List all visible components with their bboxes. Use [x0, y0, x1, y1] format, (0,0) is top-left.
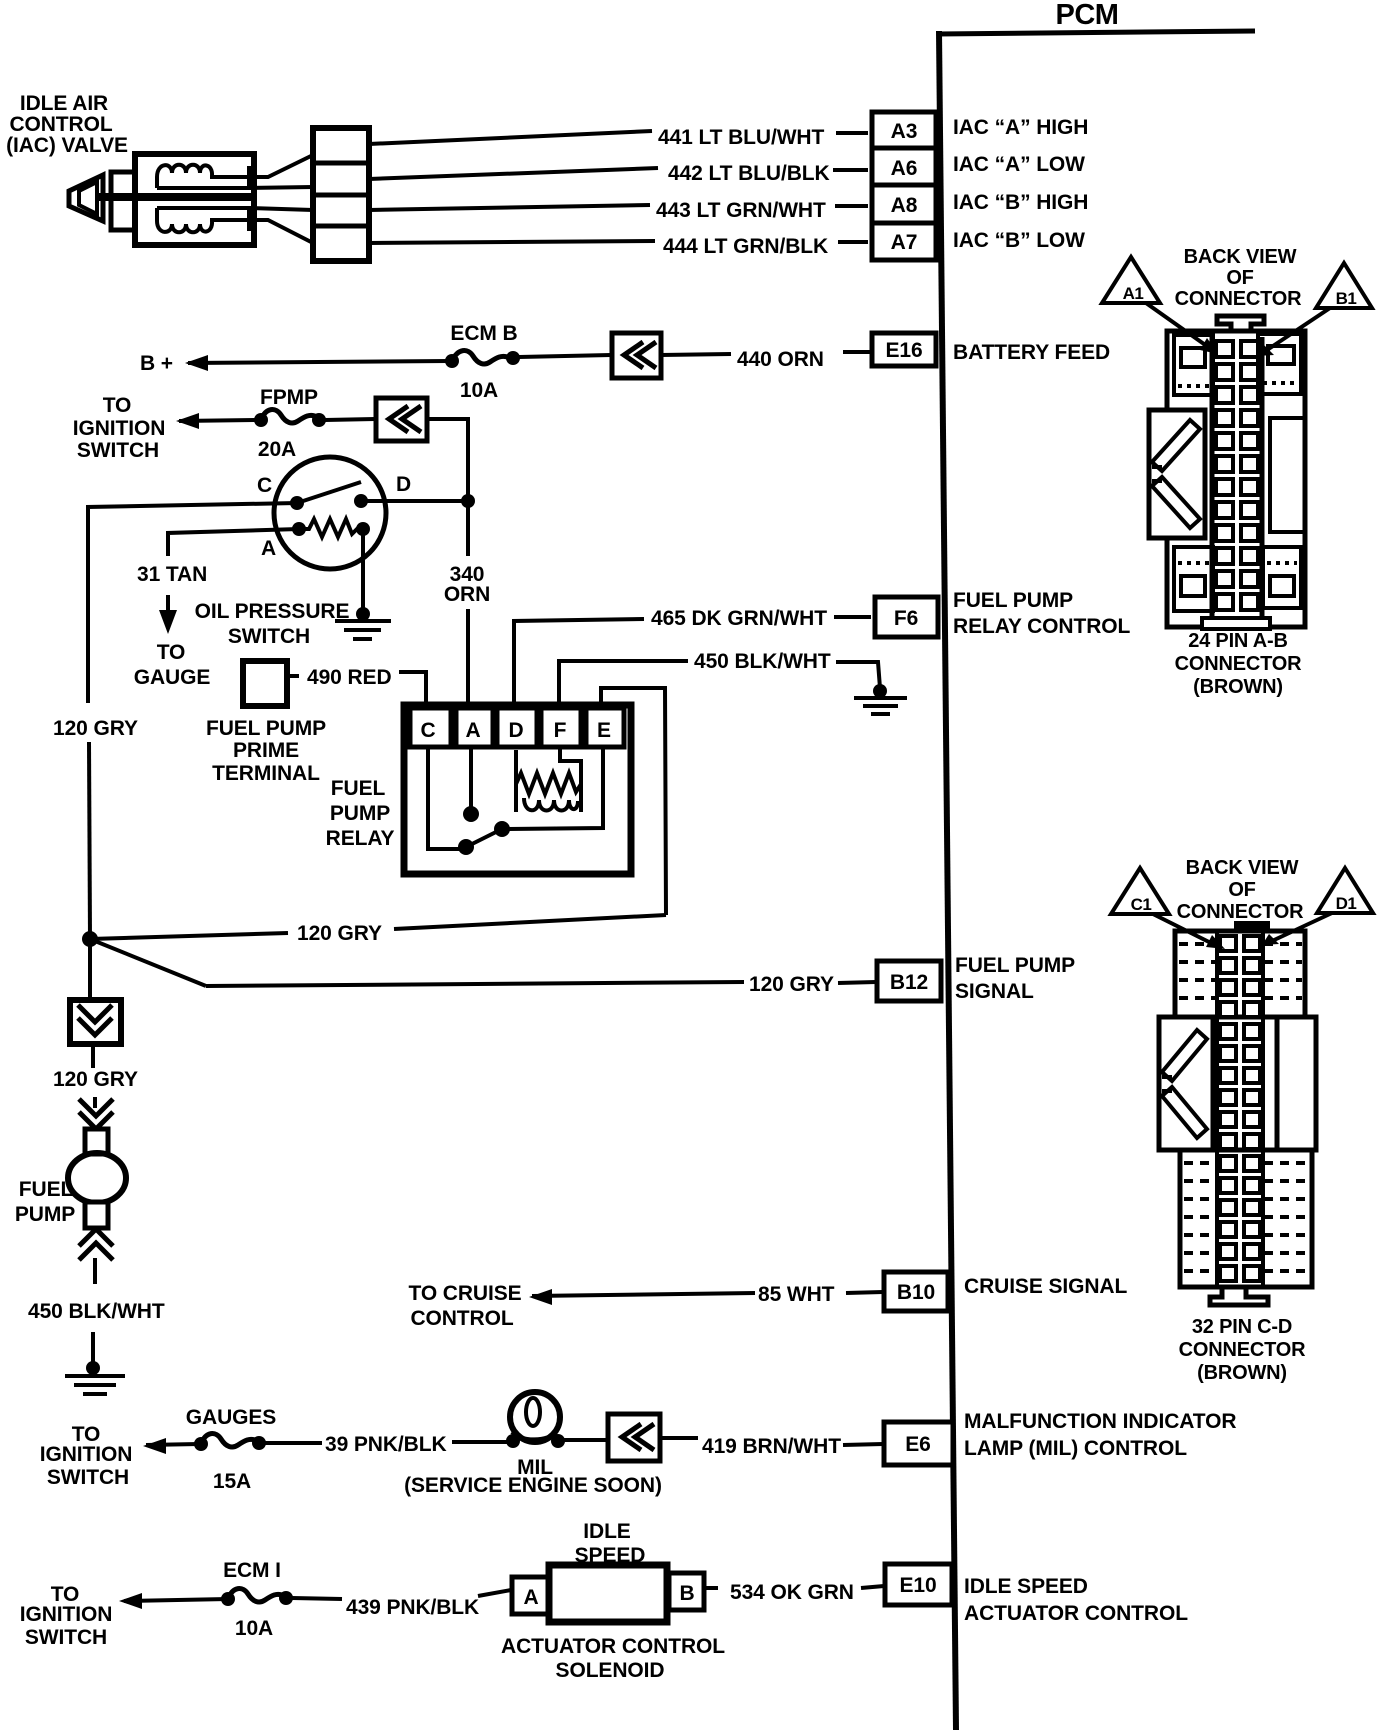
- svg-text:B12: B12: [890, 971, 928, 994]
- svg-text:B +: B +: [140, 352, 173, 375]
- svg-text:A6: A6: [891, 157, 918, 180]
- svg-text:CRUISE SIGNAL: CRUISE SIGNAL: [964, 1275, 1127, 1298]
- svg-text:15A: 15A: [213, 1470, 251, 1493]
- svg-text:FUEL PUMP: FUEL PUMP: [953, 589, 1073, 612]
- svg-text:31 TAN: 31 TAN: [137, 563, 207, 586]
- svg-text:RELAY CONTROL: RELAY CONTROL: [953, 615, 1130, 638]
- svg-text:TO: TO: [157, 641, 186, 664]
- svg-text:PCM: PCM: [1056, 0, 1119, 31]
- svg-text:PUMP: PUMP: [330, 802, 390, 825]
- svg-text:450 BLK/WHT: 450 BLK/WHT: [694, 650, 831, 673]
- svg-text:LAMP (MIL) CONTROL: LAMP (MIL) CONTROL: [964, 1437, 1187, 1460]
- svg-text:10A: 10A: [460, 379, 498, 402]
- svg-text:IDLE: IDLE: [583, 1520, 631, 1543]
- svg-text:IGNITION: IGNITION: [40, 1443, 133, 1466]
- svg-text:IAC “B” LOW: IAC “B” LOW: [953, 229, 1085, 252]
- svg-text:120 GRY: 120 GRY: [53, 717, 138, 740]
- svg-text:450 BLK/WHT: 450 BLK/WHT: [28, 1300, 165, 1323]
- svg-text:SWITCH: SWITCH: [228, 625, 310, 648]
- svg-text:RELAY: RELAY: [326, 827, 395, 850]
- svg-text:20A: 20A: [258, 438, 296, 461]
- svg-text:ACTUATOR CONTROL: ACTUATOR CONTROL: [501, 1635, 725, 1658]
- svg-text:CONNECTOR: CONNECTOR: [1175, 653, 1302, 675]
- svg-text:BACK VIEW: BACK VIEW: [1184, 246, 1297, 268]
- svg-text:FPMP: FPMP: [260, 386, 318, 409]
- svg-text:440 ORN: 440 ORN: [737, 348, 824, 371]
- svg-text:TO CRUISE: TO CRUISE: [408, 1282, 521, 1305]
- svg-text:32 PIN C-D: 32 PIN C-D: [1192, 1316, 1292, 1338]
- svg-text:FUEL: FUEL: [331, 777, 386, 800]
- svg-text:ORN: ORN: [444, 583, 490, 606]
- svg-text:F: F: [554, 719, 567, 742]
- svg-text:B10: B10: [897, 1281, 935, 1304]
- svg-text:CONTROL: CONTROL: [410, 1307, 513, 1330]
- svg-text:CONNECTOR: CONNECTOR: [1177, 901, 1304, 923]
- svg-text:A: A: [465, 719, 480, 742]
- svg-text:F6: F6: [894, 607, 918, 630]
- svg-text:GAUGE: GAUGE: [134, 666, 211, 689]
- svg-text:85 WHT: 85 WHT: [758, 1283, 835, 1306]
- svg-text:120 GRY: 120 GRY: [53, 1068, 138, 1091]
- svg-text:534 OK GRN: 534 OK GRN: [730, 1581, 854, 1604]
- svg-text:A: A: [261, 537, 276, 560]
- svg-text:444 LT GRN/BLK: 444 LT GRN/BLK: [663, 235, 828, 258]
- svg-text:E16: E16: [885, 339, 922, 362]
- svg-text:(IAC) VALVE: (IAC) VALVE: [6, 134, 128, 157]
- svg-text:B: B: [679, 1582, 694, 1605]
- svg-text:(BROWN): (BROWN): [1197, 1362, 1287, 1384]
- svg-text:D: D: [508, 719, 523, 742]
- svg-text:120 GRY: 120 GRY: [297, 922, 382, 945]
- svg-text:MALFUNCTION INDICATOR: MALFUNCTION INDICATOR: [964, 1410, 1236, 1433]
- svg-text:A3: A3: [891, 120, 918, 143]
- svg-text:441 LT BLU/WHT: 441 LT BLU/WHT: [658, 126, 824, 149]
- svg-text:TO: TO: [103, 394, 132, 417]
- svg-text:SOLENOID: SOLENOID: [556, 1659, 665, 1682]
- svg-text:FUEL PUMP: FUEL PUMP: [206, 717, 326, 740]
- svg-text:SWITCH: SWITCH: [47, 1466, 129, 1489]
- svg-text:CONTROL: CONTROL: [9, 113, 112, 136]
- svg-text:TERMINAL: TERMINAL: [212, 762, 320, 785]
- svg-text:CONNECTOR: CONNECTOR: [1175, 288, 1302, 310]
- svg-text:FUEL: FUEL: [19, 1178, 74, 1201]
- svg-text:IGNITION: IGNITION: [20, 1603, 113, 1626]
- svg-text:OF: OF: [1228, 879, 1255, 901]
- svg-text:(BROWN): (BROWN): [1193, 676, 1283, 698]
- svg-text:IDLE SPEED: IDLE SPEED: [964, 1575, 1088, 1598]
- svg-text:24 PIN A-B: 24 PIN A-B: [1188, 630, 1288, 652]
- svg-text:PRIME: PRIME: [233, 739, 299, 762]
- svg-text:443 LT GRN/WHT: 443 LT GRN/WHT: [656, 199, 826, 222]
- svg-text:120 GRY: 120 GRY: [749, 973, 834, 996]
- svg-text:IAC “B” HIGH: IAC “B” HIGH: [953, 191, 1088, 214]
- svg-text:E: E: [597, 719, 611, 742]
- svg-text:439 PNK/BLK: 439 PNK/BLK: [346, 1596, 479, 1619]
- svg-text:E6: E6: [905, 1433, 931, 1456]
- svg-text:ACTUATOR CONTROL: ACTUATOR CONTROL: [964, 1602, 1188, 1625]
- svg-text:E10: E10: [899, 1574, 936, 1597]
- svg-text:D1: D1: [1336, 894, 1357, 913]
- svg-text:IAC “A” HIGH: IAC “A” HIGH: [953, 116, 1088, 139]
- svg-text:CONNECTOR: CONNECTOR: [1179, 1339, 1306, 1361]
- svg-text:FUEL PUMP: FUEL PUMP: [955, 954, 1075, 977]
- svg-text:(SERVICE ENGINE SOON): (SERVICE ENGINE SOON): [404, 1474, 662, 1497]
- svg-text:A: A: [523, 1586, 538, 1609]
- svg-text:OIL PRESSURE: OIL PRESSURE: [195, 600, 350, 623]
- svg-text:A7: A7: [891, 231, 918, 254]
- svg-text:A1: A1: [1123, 284, 1144, 303]
- svg-text:C1: C1: [1131, 895, 1152, 914]
- svg-text:SWITCH: SWITCH: [77, 439, 159, 462]
- svg-text:10A: 10A: [235, 1617, 273, 1640]
- svg-text:ECM I: ECM I: [223, 1559, 281, 1582]
- svg-text:39 PNK/BLK: 39 PNK/BLK: [325, 1433, 447, 1456]
- svg-text:BATTERY FEED: BATTERY FEED: [953, 341, 1110, 364]
- svg-text:BACK VIEW: BACK VIEW: [1186, 857, 1299, 879]
- svg-text:D: D: [396, 473, 411, 496]
- svg-text:442 LT BLU/BLK: 442 LT BLU/BLK: [668, 162, 830, 185]
- svg-text:C: C: [420, 719, 435, 742]
- svg-text:SPEED: SPEED: [575, 1544, 646, 1567]
- svg-text:C: C: [257, 474, 272, 497]
- svg-text:OF: OF: [1226, 267, 1253, 289]
- svg-text:B1: B1: [1336, 289, 1357, 308]
- svg-text:IGNITION: IGNITION: [73, 417, 166, 440]
- svg-text:PUMP: PUMP: [15, 1203, 75, 1226]
- svg-text:ECM B: ECM B: [450, 322, 517, 345]
- svg-text:419 BRN/WHT: 419 BRN/WHT: [702, 1435, 841, 1458]
- svg-text:SIGNAL: SIGNAL: [955, 980, 1034, 1003]
- svg-text:A8: A8: [891, 194, 918, 217]
- svg-text:GAUGES: GAUGES: [186, 1406, 277, 1429]
- svg-text:490 RED: 490 RED: [307, 666, 392, 689]
- svg-text:IAC “A” LOW: IAC “A” LOW: [953, 153, 1085, 176]
- svg-text:IDLE AIR: IDLE AIR: [20, 92, 108, 115]
- svg-text:465 DK GRN/WHT: 465 DK GRN/WHT: [651, 607, 827, 630]
- svg-text:SWITCH: SWITCH: [25, 1626, 107, 1649]
